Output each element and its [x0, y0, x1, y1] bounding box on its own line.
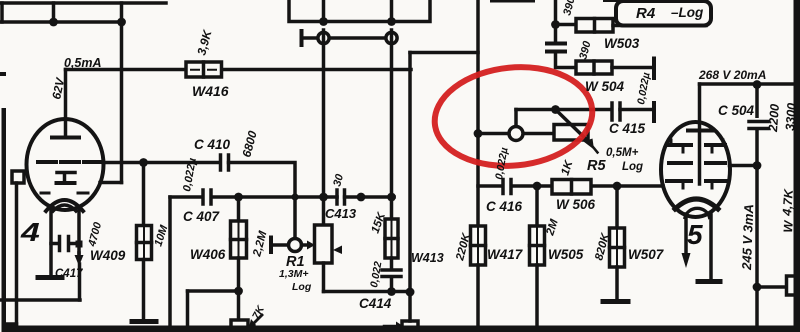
tube V4 cathode arcs	[46, 200, 83, 211]
wire W413 riser x=410	[408, 53, 412, 293]
resistor W503	[576, 19, 613, 33]
tube V5 grid ticks	[671, 140, 723, 188]
svg-text:0,5M+: 0,5M+	[606, 147, 639, 159]
wire step to bus	[4, 322, 17, 326]
wire 268V rail y=84	[700, 82, 795, 86]
wire riser x=121.5 (rail to tube4 g2 lead)	[120, 3, 124, 183]
resistor W409 10M	[137, 226, 152, 260]
junction dot	[49, 18, 58, 27]
wire y=291 to corner	[188, 289, 239, 293]
svg-text:W416: W416	[192, 83, 229, 99]
junction dot W507 tap	[613, 182, 622, 191]
junction dot at 268V rail	[753, 80, 762, 89]
svg-text:C413: C413	[325, 206, 357, 221]
svg-text:1,3M+: 1,3M+	[279, 268, 308, 280]
capacitor C413 plates	[337, 190, 345, 204]
wire left closure x=2	[0, 3, 4, 22]
wire V5 anode drop	[698, 84, 702, 128]
wire drop x=187.5 to bus	[186, 291, 190, 327]
wire W409 to ground	[142, 260, 146, 320]
svg-text:R4: R4	[636, 5, 656, 22]
wire W406 bottom	[237, 258, 241, 291]
junction dot	[117, 18, 126, 27]
svg-text:C 416: C 416	[486, 199, 523, 214]
R5 pointer arrow	[591, 145, 598, 153]
tube V5 envelope	[661, 122, 730, 217]
wire V4 grid output y=162.5	[103, 161, 219, 165]
ground bar left leg	[38, 275, 62, 280]
junction dot	[406, 288, 415, 297]
svg-text:R5: R5	[587, 158, 606, 174]
tube V4 envelope	[27, 119, 104, 210]
wiper arrow into R1	[302, 243, 309, 247]
wire to V5 screen	[730, 164, 758, 168]
junction dot	[387, 287, 396, 296]
capacitor C407	[203, 190, 211, 204]
tube V5 grid row3	[667, 179, 727, 183]
potentiometer R1 jack terminal	[269, 238, 273, 253]
resistor W507 820K	[610, 186, 625, 267]
label frame R4	[616, 1, 711, 26]
wire frame riser x=323.5	[322, 0, 326, 22]
wire W505 to bus	[535, 265, 539, 327]
capacitor C410 plates	[221, 155, 229, 170]
svg-text:C 407: C 407	[183, 209, 221, 224]
svg-text:W507: W507	[628, 247, 665, 262]
wire R1 top lead	[322, 197, 326, 225]
wire to 4,7K	[757, 285, 787, 289]
capacitor C417 plates	[60, 237, 69, 251]
connector circle R1	[289, 239, 302, 252]
svg-text:245 V 3mA: 245 V 3mA	[739, 204, 756, 271]
svg-text:Log: Log	[622, 161, 643, 173]
tube V5 cathode right leg	[709, 215, 713, 279]
wire cathode left leg	[49, 207, 53, 275]
capacitor C416 plates	[503, 180, 511, 194]
tube V5 cathode arcs	[675, 199, 718, 209]
junction dot	[319, 193, 328, 202]
tube V4 anode	[52, 136, 79, 140]
stub at left edge	[0, 72, 6, 76]
svg-text:4: 4	[20, 219, 40, 247]
wire screen feed y=52.5	[410, 51, 478, 55]
svg-text:5: 5	[687, 219, 703, 250]
ground bar W507	[603, 299, 628, 304]
svg-text:4,7K: 4,7K	[780, 188, 796, 217]
svg-text:0,5mA: 0,5mA	[64, 56, 102, 70]
capacitor C504 plates	[749, 118, 768, 130]
junction dot W409 tap	[139, 158, 148, 167]
tube V5 grid row2	[669, 161, 725, 165]
polarity arrow down	[77, 253, 81, 256]
svg-text:W503: W503	[604, 36, 640, 51]
wire R1 bottom lead to y=291.5	[322, 263, 326, 292]
wire W413 drop	[408, 292, 412, 321]
svg-text:W417: W417	[487, 247, 524, 262]
junction dot R5 net	[474, 129, 483, 138]
wire C410 out, corner down to wire2 and R1 jack	[229, 163, 296, 239]
arrow at 7K	[254, 315, 262, 323]
wire R5 rail y=133.5	[478, 132, 554, 136]
wire frame riser x=391.5	[390, 0, 394, 22]
resistor 7K on bus	[231, 320, 248, 330]
capacitor C417 leads	[51, 242, 79, 246]
capacitor C414 0,022	[390, 258, 394, 268]
wire main riser x=478	[476, 0, 480, 226]
junction dot	[551, 105, 560, 114]
resistor W505 2M	[530, 186, 545, 265]
wire cathode right leg	[77, 207, 81, 253]
arrowhead right of R1 body	[333, 246, 342, 255]
svg-text:C 410: C 410	[194, 137, 231, 152]
connector circle J1	[318, 32, 329, 43]
connector circle R5 jack	[509, 127, 523, 141]
svg-text:W505: W505	[548, 247, 584, 262]
junction dot	[551, 20, 560, 29]
right border bar	[794, 0, 800, 332]
capacitor C415 plates	[612, 103, 620, 120]
wire W503 riser x=555.5	[554, 0, 558, 25]
tube V5 anode	[688, 129, 713, 133]
wire to W504	[556, 54, 577, 68]
svg-text:W406: W406	[190, 247, 226, 262]
wire supply rail y=22	[0, 20, 122, 24]
terminal bar	[300, 31, 304, 45]
resistor W504	[576, 61, 612, 74]
wire top-center transformer frame	[289, 0, 430, 22]
wire W503 out to R4 frame	[613, 24, 706, 28]
connector circle J2	[386, 32, 397, 43]
wire coupling rail y=197	[170, 195, 394, 199]
ground bar W409	[132, 319, 156, 324]
terminal bar	[652, 59, 656, 79]
potentiometer R5 body 0,5M	[554, 125, 588, 141]
capacitor 390 plates	[554, 25, 558, 42]
junction dot screen tap	[753, 161, 762, 170]
resistor W406 2,2M	[231, 197, 247, 258]
tube V5 cathode left leg + arrow	[684, 214, 688, 254]
wire jack top lead	[514, 110, 518, 127]
junction dot	[319, 17, 328, 26]
resistor W413 on bus	[402, 321, 418, 332]
junction dot	[234, 287, 243, 296]
wire tap rail y=109.5	[516, 108, 612, 112]
wire 62V drop to tube4 anode	[64, 70, 68, 138]
cut text remnants at top edge	[490, 0, 535, 3]
tube V4 screen structure	[57, 173, 75, 182]
wire W504 out	[612, 66, 652, 70]
wire leg continues to return	[78, 264, 82, 300]
resistor 4,7K	[787, 276, 797, 295]
terminal bar	[652, 103, 656, 121]
wire link y=38	[302, 36, 387, 40]
svg-text:–Log: –Log	[671, 5, 704, 20]
junction dot C410 link	[291, 193, 298, 200]
wire C415 out	[620, 108, 652, 112]
wire y=291.5 C414 net	[324, 290, 411, 294]
wire jack lead	[271, 243, 289, 247]
terminal bar under V5	[698, 279, 720, 284]
wire x=391.5 down to node wire2	[390, 30, 394, 197]
grid terminal box	[12, 171, 24, 183]
junction dot W505 tap	[533, 182, 542, 191]
svg-text:C414: C414	[359, 296, 392, 311]
wire W503 left lead	[556, 23, 577, 27]
wire return y=300	[1, 298, 80, 302]
svg-text:C 415: C 415	[609, 121, 646, 136]
svg-text:W: W	[781, 219, 796, 233]
wire tube4 g2 lead	[100, 181, 122, 185]
wire W507 to ground	[615, 267, 619, 299]
wire grid rail y=186	[478, 184, 663, 188]
red highlight ellipse	[430, 60, 597, 173]
svg-text:Log: Log	[292, 281, 312, 293]
wire C407 left drop x=170 to bus	[168, 197, 172, 327]
svg-text:W409: W409	[90, 248, 126, 263]
resistor W416 3,9K	[186, 62, 222, 77]
junction dot 4,7K tap	[753, 283, 762, 292]
svg-text:3300: 3300	[783, 102, 799, 131]
potentiometer R1 body 1,3M	[315, 225, 333, 263]
tube V4 heater dashes	[41, 192, 88, 195]
svg-text:W 506: W 506	[556, 197, 596, 212]
R5 wiper diagonal	[556, 110, 590, 143]
junction blob on cathode leg	[76, 241, 83, 248]
left border bar	[2, 108, 7, 332]
tube V4 grid dashes	[38, 160, 100, 164]
resistor W506 1K	[552, 180, 591, 195]
junction dot W406 tap	[234, 193, 243, 202]
resistor W417 220K	[471, 226, 486, 265]
resistor 15K	[385, 197, 398, 258]
wire anode rail y=69.5 (0,5mA)	[66, 68, 412, 72]
svg-text:C417: C417	[55, 268, 83, 280]
ground bus bar	[2, 326, 800, 332]
wire riser x=53.5	[52, 3, 56, 22]
junction dot	[387, 17, 396, 26]
wire grid terminal drop x=16.5	[15, 183, 19, 324]
junction dot 15K tap	[387, 193, 396, 202]
junction dot right of C413	[357, 193, 366, 202]
svg-text:C 504: C 504	[718, 103, 755, 118]
wire W409 drop	[142, 163, 146, 225]
tube V5 grid row1	[669, 143, 725, 147]
wire drop to 7K box	[237, 291, 241, 320]
arrow at W413 box	[384, 325, 396, 328]
wire W417 to bus	[476, 265, 480, 327]
wire C504/245V riser x=757	[755, 85, 759, 328]
svg-text:W413: W413	[411, 251, 444, 265]
svg-text:2200: 2200	[766, 103, 782, 133]
svg-text:W 504: W 504	[585, 79, 625, 94]
wire x=323.5 down to node wire2	[322, 30, 326, 197]
svg-text:268 V 20mA: 268 V 20mA	[698, 68, 766, 82]
wire top rail y=3	[1, 1, 166, 5]
tube V5 beam rod	[698, 131, 702, 185]
